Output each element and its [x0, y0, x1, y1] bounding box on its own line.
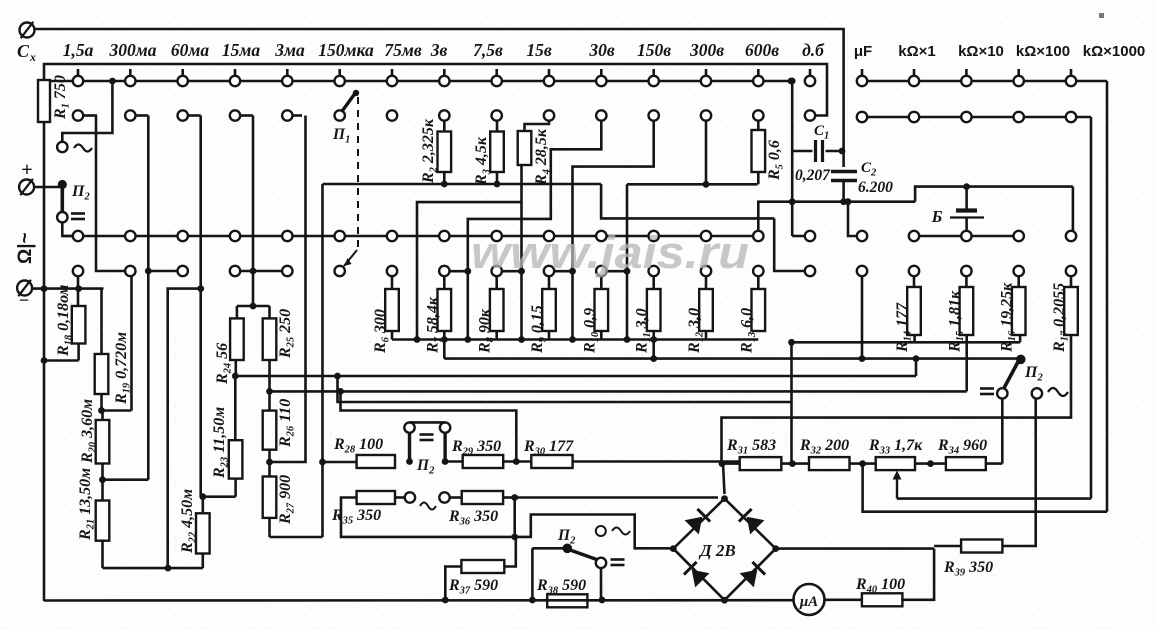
row-4 contact c5 (П1 target) — [335, 266, 345, 276]
stub R8 top to tap — [502, 268, 525, 343]
resistor R24 — [214, 306, 244, 385]
junction x862 on y358.6 — [859, 355, 866, 362]
wire c12 drop — [705, 121, 708, 185]
svg-text:R2 2,325к: R2 2,325к — [420, 118, 440, 184]
wire R30 right to R31 left — [573, 460, 740, 463]
junction R3 bottom — [441, 181, 501, 188]
wire R40 right riser — [902, 549, 934, 600]
wire stair c10 — [468, 121, 602, 340]
junction R31 left node — [719, 460, 740, 494]
svg-text:R23 11,50м: R23 11,50м — [211, 407, 231, 479]
svg-text:kΩ×1000: kΩ×1000 — [1083, 43, 1146, 60]
switch П2a common dot — [58, 180, 67, 189]
svg-text:kΩ×10: kΩ×10 — [958, 43, 1004, 60]
wire R24-R25 top U with stem — [237, 303, 270, 310]
svg-text:6.200: 6.200 — [858, 179, 893, 196]
terminal − input — [17, 280, 32, 310]
svg-text:+: + — [21, 159, 32, 181]
svg-text:x: x — [29, 50, 36, 64]
resistor R28 — [333, 436, 395, 468]
wire R4 tap branch y202.1 — [414, 202, 522, 343]
svg-text:R16 19,25к: R16 19,25к — [999, 282, 1019, 353]
svg-text:www.jais.ru: www.jais.ru — [471, 227, 749, 278]
junction R25-R26 node — [266, 388, 273, 395]
capacitor C2 — [831, 160, 893, 202]
wire row-1 kOhm bus + right edge drop x=1107 — [857, 69, 1107, 512]
switch П2c contact = — [980, 388, 1008, 398]
svg-text:0,207: 0,207 — [795, 167, 831, 184]
resistor R30 — [523, 438, 574, 468]
label П2a — [71, 183, 90, 203]
switch П2b arms — [410, 433, 446, 459]
wire R14-R16 bottoms y342.3 — [792, 335, 1021, 342]
row-4 contact x862 with drop — [857, 266, 867, 359]
wire v1 column — [147, 116, 150, 480]
svg-text:30в: 30в — [588, 40, 615, 60]
row-3 contact x810 fed from x792 column — [792, 202, 815, 242]
wire П2d contact drop — [599, 568, 606, 603]
switch П2d arm — [567, 549, 599, 561]
row-2 switch contacts c0-c4 with elbows — [73, 110, 302, 120]
stub R7 top to tap — [450, 268, 472, 343]
wire bus y201.7 — [758, 202, 915, 231]
svg-text:д.б: д.б — [802, 40, 825, 60]
svg-text:R6 300: R6 300 — [372, 309, 392, 354]
label П2c — [1024, 364, 1043, 384]
junction R32-R33 node — [850, 460, 876, 467]
resistor R4 — [518, 121, 553, 340]
svg-text:R1 750: R1 750 — [52, 75, 72, 120]
wire from П2a to row3 bus — [62, 222, 73, 236]
svg-text:R5 0,6: R5 0,6 — [766, 140, 786, 181]
wire shunt chain y339.5 — [392, 331, 758, 340]
resistor R25 — [263, 306, 297, 391]
junction feeder on y201.7 bus — [845, 198, 852, 205]
row-4 contact c0 (top of R18) — [73, 266, 83, 276]
diode bridge Д2В frame — [670, 495, 779, 603]
wire row-2 kOhm bus + right drop x=1091 — [857, 112, 1091, 499]
wire R36 node to bridge apex — [515, 496, 718, 499]
resistor R40 — [855, 576, 905, 606]
switch П2a contact = — [57, 212, 85, 222]
switch П1 arm — [342, 90, 360, 112]
wire v2 column — [197, 116, 204, 497]
wire R37 left drop — [442, 567, 462, 604]
svg-text:R21 13,50м: R21 13,50м — [77, 468, 97, 541]
svg-text:R11 3,0: R11 3,0 — [634, 308, 654, 354]
resistor R13 — [738, 266, 765, 354]
wire v4 column — [270, 116, 306, 463]
contact ~ below R1 — [57, 142, 92, 152]
wire bridge left stub — [667, 547, 673, 550]
junction dot a.b feed on row1 — [788, 78, 795, 85]
row-2 contacts c7-c9 (tops of R2,R3,R4) — [439, 110, 554, 120]
junction c12 on y184.3 — [703, 181, 710, 188]
svg-text:150в: 150в — [637, 40, 671, 60]
row-4 contact x810 with feeder — [774, 218, 815, 276]
junction − at R18 column — [75, 285, 82, 292]
scan speck top-right — [1099, 13, 1104, 18]
label Д2В — [698, 541, 736, 560]
switch П2a arm — [60, 186, 64, 212]
svg-text:R26 110: R26 110 — [277, 399, 297, 448]
resistor R18 — [55, 276, 85, 361]
resistor R5 — [752, 121, 786, 185]
row-2 contact c5 (П1 arm base) — [335, 110, 345, 120]
svg-text:R20 3,60м: R20 3,60м — [79, 399, 99, 464]
resistor R3 — [473, 121, 504, 187]
svg-text:R7 58,4к: R7 58,4к — [424, 296, 444, 354]
wire x792 column down — [791, 151, 794, 202]
resistor R29 — [451, 438, 503, 468]
junction R28 right — [406, 458, 413, 465]
wire stair c11 — [573, 121, 654, 340]
junction − on border — [41, 285, 48, 292]
svg-text:C: C — [17, 41, 30, 61]
row-3 contact x862 with feeder — [848, 202, 867, 242]
svg-text:R38 590: R38 590 — [536, 577, 586, 597]
resistor R35 — [331, 491, 395, 527]
junction 1,5a tap on row1 — [109, 78, 116, 85]
label П2b — [416, 457, 435, 477]
switch П2d contact = — [596, 558, 625, 568]
svg-text:R28 100: R28 100 — [333, 436, 383, 456]
svg-text:μF: μF — [854, 43, 872, 60]
wire bus y184 left — [319, 184, 601, 537]
wire R35 left wrap — [341, 498, 515, 537]
svg-text:R9 0,15: R9 0,15 — [529, 305, 549, 354]
svg-text:3ма: 3ма — [274, 40, 305, 60]
watermark — [471, 227, 749, 278]
wire top inner border y=64 — [44, 64, 827, 116]
resistor R14 — [894, 266, 921, 353]
svg-text:kΩ×100: kΩ×100 — [1016, 43, 1070, 60]
svg-text:R13 6,0: R13 6,0 — [738, 308, 758, 354]
wire П2d common drop — [529, 548, 536, 603]
diode bottom-left — [684, 562, 710, 588]
wire bus y376 — [235, 355, 919, 376]
resistor R21 — [77, 468, 109, 568]
diode top-left — [685, 509, 711, 535]
resistor R7 — [424, 266, 451, 354]
svg-text:15в: 15в — [526, 40, 552, 60]
resistor R19 — [95, 332, 133, 411]
svg-text:R14 177: R14 177 — [894, 302, 914, 353]
resistor R17 — [1051, 266, 1078, 353]
svg-text:R34 960: R34 960 — [937, 437, 987, 457]
diode bottom-right — [740, 562, 766, 588]
svg-text:R19 0,720м: R19 0,720м — [113, 332, 133, 405]
wire row1 dot to C1 — [789, 78, 796, 151]
switch ~ contacts — [395, 492, 462, 509]
svg-text:μА: μА — [799, 594, 818, 610]
switch П2c common — [1016, 355, 1026, 365]
wire row-3 right bus segment — [909, 231, 1024, 241]
wire border drop x=843.6 to C2 — [842, 64, 845, 167]
svg-text:R30 177: R30 177 — [523, 438, 574, 458]
row-2 contacts c10-c12 — [596, 110, 711, 120]
svg-text:R25 250: R25 250 — [277, 309, 297, 359]
svg-text:Ω|~: Ω|~ — [15, 232, 36, 264]
svg-text:R36 350: R36 350 — [448, 508, 498, 528]
junction R36 right — [503, 494, 518, 501]
wire riser to П2b feed — [337, 388, 516, 462]
svg-text:R29 350: R29 350 — [451, 438, 501, 458]
stub R10 top to tap — [607, 268, 631, 343]
resistor R9 — [529, 266, 556, 354]
wire − to R19 top — [32, 289, 104, 354]
resistor R39 — [934, 540, 1002, 579]
wire tap segment y184.3 right — [627, 183, 758, 186]
svg-text:R18 0,18ом: R18 0,18ом — [55, 284, 75, 357]
row-2 contact a.b column — [805, 110, 815, 120]
battery Б — [931, 183, 984, 231]
svg-text:R32 200: R32 200 — [799, 437, 849, 457]
wire R27 bottom link — [270, 536, 323, 539]
terminal Cx (free terminal, top-left) — [17, 22, 36, 64]
resistor R15 — [946, 266, 973, 353]
meter μA — [794, 584, 825, 615]
row-2 contact c6 (lone) — [387, 110, 397, 120]
wire R33 wiper line y498.6 — [897, 497, 1091, 500]
svg-text:75мв: 75мв — [384, 40, 421, 60]
svg-text:kΩ×1: kΩ×1 — [898, 43, 935, 60]
junction C1 right — [839, 148, 846, 155]
resistor R20 — [79, 399, 109, 480]
wire left border — [43, 122, 46, 601]
svg-text:R40 100: R40 100 — [855, 576, 905, 596]
wire R34 right to = contact — [986, 398, 1003, 463]
wire tap x626.3 to chain — [626, 184, 629, 339]
wire row-3 bus with contacts — [62, 231, 763, 241]
junction C2 on y201.7 — [840, 198, 847, 205]
resistor R16 — [999, 266, 1026, 353]
svg-text:R35 350: R35 350 — [331, 507, 381, 527]
svg-text:R15 1,81к: R15 1,81к — [946, 290, 966, 353]
svg-text:R22 4,50м: R22 4,50м — [179, 489, 199, 554]
svg-text:R3 4,5к: R3 4,5к — [473, 136, 493, 186]
row-4 contact c1 — [96, 116, 136, 277]
wire meter left — [792, 599, 795, 602]
label П2d — [557, 526, 630, 547]
wire v3 column to R24/R25 stem — [252, 116, 255, 307]
row-4 contact c2 fed from v1 — [145, 266, 188, 276]
svg-text:R27 900: R27 900 — [277, 475, 297, 525]
wire bottom border bus — [44, 599, 794, 602]
wire x791.5 to R31-R32 node — [788, 339, 795, 464]
resistor R12 — [686, 266, 713, 354]
resistor R1 — [38, 75, 72, 122]
wire R15 bottom leg to y391.4 bus — [965, 335, 968, 391]
resistor R36 — [448, 491, 503, 528]
svg-text:3в: 3в — [430, 40, 448, 60]
wire 1,5a tap to ~ contact — [62, 81, 112, 142]
capacitor C1 — [792, 123, 843, 184]
switch П2b contacts — [404, 422, 450, 440]
label Ω~ rotated — [15, 232, 36, 264]
diode top-right — [739, 509, 765, 535]
switch П2c contact ~ — [1032, 388, 1068, 399]
junction R20 bottom / v1 — [99, 476, 148, 483]
wire R28 bus stub — [323, 461, 357, 464]
row-2 contact c13 (top of R5) — [753, 110, 763, 120]
junction R26 bottom node — [266, 459, 273, 466]
svg-text:R12 3,0: R12 3,0 — [686, 308, 706, 354]
wire R19-R20 node to c1 column — [98, 276, 131, 414]
svg-text:300в: 300в — [689, 40, 724, 60]
resistor R34 — [937, 437, 987, 470]
svg-text:1,5a: 1,5a — [63, 40, 94, 60]
wire bus y391.4 — [270, 390, 967, 393]
wire y201.7 to battery riser corner — [915, 187, 1073, 202]
svg-text:R37 590: R37 590 — [448, 577, 498, 597]
wire R39 right riser to ~ contact — [1002, 399, 1035, 546]
row-3 contact x1071 with riser — [1066, 187, 1076, 242]
wire R21-R22 bottom bus — [103, 565, 203, 572]
resistor R23 — [211, 376, 242, 479]
wire R37 right riser — [504, 537, 516, 567]
svg-text:Д 2В: Д 2В — [698, 541, 736, 560]
top range labels row — [63, 40, 825, 60]
label П1 — [332, 126, 350, 146]
resistor R33 potentiometer — [868, 437, 923, 499]
svg-text:15ма: 15ма — [222, 40, 260, 60]
wire R17 bottom to y418 bus — [722, 335, 1072, 464]
resistor R27 — [263, 462, 297, 537]
resistor R8 — [477, 266, 504, 354]
resistor R11 — [634, 266, 661, 354]
wire R36 node drop and route to bridge left — [511, 498, 667, 549]
junction R33-R34 node — [915, 460, 946, 467]
wire branch x167.7 leg — [168, 289, 201, 568]
svg-text:150мка: 150мка — [318, 40, 374, 60]
wire row-1 terminal bus (left block) — [50, 69, 791, 86]
svg-text:R33 1,7к: R33 1,7к — [868, 437, 923, 457]
resistor R26 — [263, 391, 297, 462]
svg-text:7,5в: 7,5в — [473, 40, 503, 60]
wire R29-R30 link — [503, 458, 531, 465]
wire R18 bottom to border — [41, 357, 79, 364]
wire bridge right to R39/R40 node — [776, 547, 934, 550]
junction R24 bottom on y376 — [232, 373, 239, 380]
row-4 contacts c3,c4 with middle junction — [230, 266, 293, 276]
top ohm/uF range labels row — [854, 43, 1145, 60]
junction R11 leg on y358.6 — [650, 336, 657, 362]
svg-text:600в: 600в — [745, 40, 779, 60]
stub R9 top to tap — [554, 268, 576, 343]
svg-text:60ма: 60ма — [171, 40, 209, 60]
wire R32R33 node drop y511.7 — [863, 464, 1107, 512]
resistor R38 — [536, 577, 587, 607]
resistor R31 — [726, 437, 781, 470]
switch П2c arm — [1004, 361, 1019, 388]
switch П2d common — [532, 544, 572, 554]
switch П1 dashed link — [344, 97, 358, 266]
junction R31-R32 node — [781, 460, 809, 467]
wire meter to R40 — [825, 598, 862, 601]
terminal a.b — [805, 69, 815, 86]
wire top bus from Cx to right border — [35, 29, 844, 64]
svg-text:R17 0,2055: R17 0,2055 — [1051, 283, 1071, 353]
resistor R22 — [179, 489, 210, 568]
svg-text:R31 583: R31 583 — [726, 437, 776, 457]
junction x792 on y201.7 — [789, 198, 796, 205]
svg-text:300ма: 300ма — [109, 40, 157, 60]
resistor R6 — [372, 266, 399, 354]
wire bus y358.6 — [441, 336, 1021, 359]
svg-text:R8 90к: R8 90к — [477, 308, 497, 354]
junction R22 top / R23 bottom — [199, 479, 235, 501]
resistor R2 — [420, 118, 451, 184]
svg-text:Б: Б — [931, 207, 943, 226]
terminal + input — [19, 159, 62, 195]
resistor R10 — [581, 266, 608, 354]
svg-text:R39 350: R39 350 — [943, 559, 993, 579]
svg-text:R10 0,9: R10 0,9 — [581, 308, 601, 354]
wire y402 feed — [334, 373, 791, 402]
junction R29 left — [442, 458, 463, 465]
svg-text:−: − — [19, 290, 29, 310]
resistor R32 — [799, 437, 850, 470]
resistor R37 — [448, 560, 504, 597]
wire bus-end jog to row4 x810 (y218.4 line) — [601, 184, 774, 218]
